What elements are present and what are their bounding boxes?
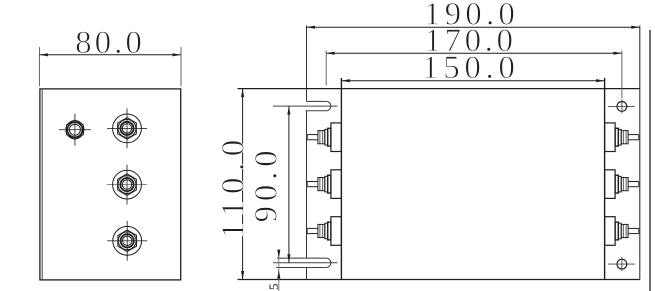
svg-text:110.0: 110.0	[216, 133, 252, 239]
svg-text:150.0: 150.0	[422, 50, 519, 86]
svg-text:5: 5	[266, 283, 281, 290]
svg-text:80.0: 80.0	[75, 25, 145, 61]
svg-text:90.0: 90.0	[249, 146, 285, 223]
